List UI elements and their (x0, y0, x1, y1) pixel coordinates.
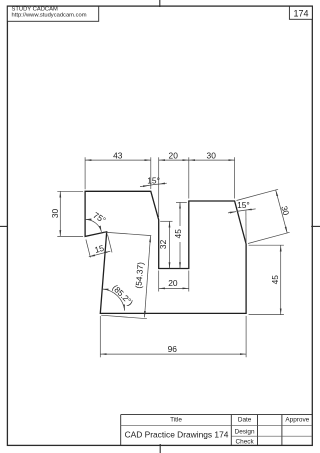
dim 15 aligned ext lines (86, 240, 91, 258)
dim 43 line (85, 159, 151, 161)
svg-text:15°: 15° (147, 175, 160, 185)
svg-text:http://www.studycadcam.com: http://www.studycadcam.com (12, 13, 87, 19)
dim 32 line (169, 221, 171, 268)
svg-text:32: 32 (158, 239, 168, 249)
angle 15 left arc (149, 184, 159, 185)
dim 30 aligned ext lines (237, 189, 279, 200)
dim 15 aligned line (89, 251, 111, 257)
svg-text:45: 45 (173, 229, 183, 239)
dim 20 notch ext lines (158, 271, 160, 292)
header box (7, 6, 98, 21)
dim 45 notch ext tick (176, 201, 187, 203)
svg-text:15°: 15° (237, 200, 250, 210)
angle 15 left tail right (159, 182, 167, 185)
dim 20 notch line (159, 287, 189, 289)
dim 45 notch line upper (179, 202, 181, 226)
left middle tick (0, 225, 8, 227)
right middle tick (311, 225, 320, 227)
dim 30 aligned line (276, 190, 288, 233)
dim 20 top line (159, 159, 189, 161)
svg-text:20: 20 (169, 150, 179, 160)
part outline (85, 191, 246, 313)
angle 15 left tail left (140, 185, 149, 186)
svg-text:75°: 75° (91, 210, 107, 225)
svg-text:45: 45 (270, 275, 280, 285)
dim 32 ext tick (160, 220, 172, 222)
svg-text:174: 174 (293, 9, 308, 19)
svg-text:30: 30 (50, 209, 60, 219)
dim 45 notch line lower (179, 242, 181, 269)
svg-text:Title: Title (170, 417, 182, 424)
svg-text:(54.37): (54.37) (133, 261, 145, 288)
angle 75 arc (85, 219, 101, 232)
svg-text:Approve: Approve (285, 417, 309, 424)
dim 30 top ext line (234, 157, 236, 198)
angle 15 right tail left (228, 212, 236, 213)
dim 30 left ext lines (57, 190, 83, 192)
page number box (289, 6, 312, 19)
angle 15 right arc (237, 210, 246, 211)
dim 96 ext lines (99, 316, 101, 357)
dim 30 top line (189, 159, 235, 161)
top center tick (159, 0, 161, 7)
svg-text:30: 30 (207, 150, 217, 160)
dim 43 ext lines (84, 157, 86, 189)
svg-text:96: 96 (168, 344, 178, 354)
title block inner lines (121, 426, 313, 437)
angle 15 right ref line (245, 210, 247, 244)
svg-text:20: 20 (168, 278, 178, 288)
dim 45 right line (280, 245, 282, 314)
angle 85.2 arc (102, 289, 125, 311)
bottom center tick (159, 444, 161, 453)
svg-text:Check: Check (236, 439, 255, 446)
svg-text:30: 30 (279, 205, 291, 217)
dimension graphics (57, 157, 289, 357)
dim 96 line (100, 353, 246, 355)
svg-text:Design: Design (235, 429, 255, 436)
svg-text:CAD Practice Drawings 174: CAD Practice Drawings 174 (125, 429, 229, 439)
angle 15 right tail right (246, 209, 256, 210)
title block outline (121, 415, 313, 446)
svg-text:Date: Date (238, 417, 252, 424)
dim 54.37 line (145, 236, 151, 317)
dim 45 right ext lines (249, 244, 284, 246)
svg-text:43: 43 (113, 150, 123, 160)
dim 30 left line (59, 191, 61, 236)
dim 20 top ext lines (158, 157, 160, 217)
dim 54.37 ext lines (103, 232, 151, 236)
